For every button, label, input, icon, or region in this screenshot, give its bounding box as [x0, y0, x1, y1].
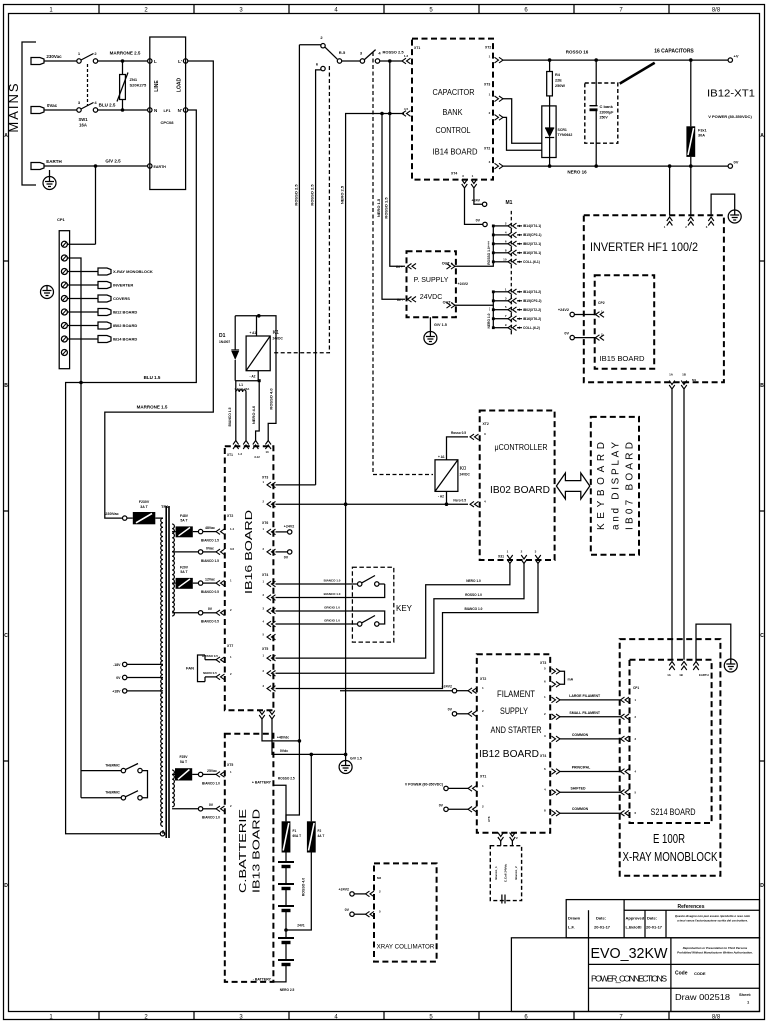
svg-text:0V: 0V — [734, 160, 739, 165]
taps -18V 0V +18V — [123, 662, 127, 666]
breaker contact 2 — [299, 44, 320, 46]
earth symbol CP1 — [41, 286, 54, 299]
IB13 board box — [225, 734, 274, 982]
+ BATTERY wire — [273, 785, 286, 821]
svg-text:TYN0642: TYN0642 — [558, 133, 573, 137]
svg-text:22E: 22E — [555, 79, 562, 83]
thermic series link — [142, 771, 147, 798]
svg-text:XT1: XT1 — [480, 775, 486, 779]
svg-text:4A T: 4A T — [318, 834, 325, 838]
mains bracket — [22, 42, 36, 185]
svg-text:0.5mH 15A: 0.5mH 15A — [235, 387, 251, 391]
starter wire PRINCIPAL — [552, 769, 561, 775]
svg-text:+24V2: +24V2 — [458, 282, 469, 286]
svg-text:XT2: XT2 — [480, 677, 486, 681]
svg-text:CP2: CP2 — [598, 301, 605, 305]
CP1 tap IB12 BOARD — [67, 311, 98, 313]
svg-text:XT7: XT7 — [227, 644, 233, 648]
svg-text:CAPACITOR: CAPACITOR — [433, 87, 475, 97]
svg-text:XT5: XT5 — [227, 763, 233, 767]
M1 plus bus — [455, 226, 493, 266]
svg-text:EARTH: EARTH — [154, 165, 167, 169]
svg-text:IB14 BOARD: IB14 BOARD — [113, 337, 137, 342]
wire 0V XT6-2 — [276, 551, 288, 553]
svg-text:8/8: 8/8 — [712, 1015, 721, 1021]
svg-text:- A2: - A2 — [438, 495, 444, 499]
svg-text:EARTH: EARTH — [699, 673, 709, 677]
CP1 tap IB14 BOARD — [67, 338, 98, 340]
svg-text:22000µF: 22000µF — [600, 111, 615, 115]
svg-text:K0: K0 — [460, 466, 467, 472]
CP1 tap X-RAY MONOBLOCK — [67, 271, 98, 273]
collimator 0V terminal — [350, 912, 354, 916]
svg-text:ROSSO 4.0: ROSSO 4.0 — [268, 388, 273, 410]
svg-text:GRIGIO 1.0: GRIGIO 1.0 — [324, 606, 340, 610]
svg-text:C bank: C bank — [600, 104, 614, 109]
breaker contact 6 — [321, 66, 325, 70]
svg-text:Bianco_2: Bianco_2 — [514, 866, 518, 880]
terminal 0Vac — [31, 107, 44, 114]
svg-text:MARRONE 2.5: MARRONE 2.5 — [110, 51, 141, 56]
tap 0Vac — [172, 551, 198, 553]
svg-text:20-01-17: 20-01-17 — [594, 925, 611, 930]
svg-text:R-5: R-5 — [339, 50, 346, 55]
starter wire SHIFTED — [552, 790, 561, 796]
svg-text:S20K275: S20K275 — [130, 83, 147, 88]
svg-text:M1: M1 — [506, 200, 513, 206]
svg-text:F48V: F48V — [180, 514, 189, 518]
svg-text:0V: 0V — [448, 708, 453, 712]
wire EARTH row — [44, 165, 148, 167]
svg-text:ZN1: ZN1 — [130, 77, 138, 82]
svg-text:230Vac: 230Vac — [46, 54, 62, 59]
M1 pin 2 — [493, 225, 508, 227]
switch SW1 pole 1-2 — [77, 59, 81, 63]
svg-text:IB14 BOARD: IB14 BOARD — [433, 147, 478, 157]
svg-text:P. SUPPLY: P. SUPPLY — [414, 277, 449, 284]
fuse F25V — [172, 773, 175, 775]
svg-text:Date:: Date: — [596, 916, 606, 921]
svg-text:IB16(XT6-1): IB16(XT6-1) — [523, 251, 541, 255]
svg-text:C: C — [4, 633, 8, 639]
svg-text:250W: 250W — [555, 84, 565, 88]
svg-text:N: N — [154, 108, 157, 113]
svg-text:COMMON: COMMON — [572, 733, 589, 737]
svg-text:XT4: XT4 — [451, 172, 457, 176]
V POWER terminal — [444, 786, 448, 790]
M1 pin 9 — [493, 327, 508, 329]
wires inverter to monoblock — [671, 389, 673, 660]
svg-text:BIANCO 1.0: BIANCO 1.0 — [202, 782, 220, 786]
svg-text:A: A — [4, 133, 8, 139]
wire N to filter — [98, 109, 148, 111]
IB07 keyboard display board — [591, 417, 639, 555]
svg-text:48Vac: 48Vac — [205, 526, 215, 530]
svg-text:F25V: F25V — [179, 755, 188, 759]
svg-text:Approved:: Approved: — [626, 916, 646, 921]
breaker contact 4 — [375, 59, 379, 63]
svg-text:BLU 1.5: BLU 1.5 — [144, 375, 161, 380]
svg-text:μCONTROLLER: μCONTROLLER — [495, 443, 548, 452]
SW1 mechanical link — [87, 64, 89, 106]
IB12 filament board box — [477, 654, 550, 832]
svg-text:SW1: SW1 — [78, 117, 88, 122]
svg-text:MAINS: MAINS — [6, 81, 21, 132]
SCR gate wires — [503, 99, 542, 143]
svg-text:25Vac: 25Vac — [207, 769, 217, 773]
svg-text:L.Belotti: L.Belotti — [626, 925, 642, 930]
wire XT5-1 to X31-1 — [276, 564, 510, 659]
svg-text:BIANCO 1.0: BIANCO 1.0 — [465, 607, 483, 611]
svg-text:XT1: XT1 — [227, 453, 233, 457]
svg-text:POWER_CONNECTIONS: POWER_CONNECTIONS — [591, 974, 667, 984]
svg-text:+24V2: +24V2 — [284, 525, 295, 529]
svg-text:IN -: IN - — [397, 298, 404, 302]
+48Vdc wire — [262, 719, 299, 741]
M1 pin 3 — [493, 300, 508, 302]
svg-text:5A T: 5A T — [180, 519, 188, 523]
svg-text:D: D — [4, 883, 8, 889]
svg-text:K1: K1 — [273, 330, 280, 336]
svg-text:+24V: +24V — [472, 199, 481, 203]
diode D1 — [234, 316, 236, 350]
svg-text:24VDC: 24VDC — [460, 473, 471, 477]
link dashed K1 — [272, 66, 329, 353]
IB16 board box — [225, 446, 274, 710]
svg-text:XT3: XT3 — [484, 83, 490, 87]
svg-text:F1: F1 — [293, 829, 297, 833]
svg-text:IB02 BOARD: IB02 BOARD — [113, 323, 137, 328]
svg-text:1B: 1B — [679, 673, 683, 677]
svg-text:BIANCO 1.0: BIANCO 1.0 — [202, 816, 220, 820]
svg-text:+V: +V — [734, 54, 739, 59]
D1 to A2 wire — [235, 380, 259, 382]
svg-text:XT3: XT3 — [262, 476, 268, 480]
svg-text:M2: M2 — [377, 876, 381, 880]
P supply box — [407, 251, 456, 317]
24V1 tap — [284, 928, 288, 932]
svg-text:CP1: CP1 — [633, 686, 639, 690]
svg-text:IB12 BOARD: IB12 BOARD — [113, 310, 137, 315]
svg-text:ROSSO 2.5: ROSSO 2.5 — [278, 777, 295, 781]
XT3-2 to IB02 wire — [276, 503, 469, 505]
svg-text:8/8: 8/8 — [712, 8, 721, 14]
svg-text:5A T: 5A T — [180, 570, 188, 574]
svg-text:FAN: FAN — [186, 666, 194, 671]
NERO 4.0 wire — [256, 381, 260, 441]
M1 pin 1 — [493, 291, 508, 293]
0V terminal — [452, 712, 456, 716]
svg-text:Reproduction or Presentation t: Reproduction or Presentation to Third Pe… — [683, 946, 748, 950]
svg-text:13: 13 — [265, 450, 269, 454]
svg-text:0Vdc: 0Vdc — [280, 749, 288, 753]
XT4 to KEY wires — [276, 583, 358, 585]
svg-text:D: D — [760, 883, 764, 889]
svg-text:SCR1: SCR1 — [558, 128, 567, 132]
wire NERO 1.5 to psupply — [382, 114, 405, 300]
tap 0V — [172, 612, 198, 614]
svg-text:0V: 0V — [208, 607, 213, 611]
svg-text:BIANCO 1.0: BIANCO 1.0 — [324, 579, 341, 583]
NERO 2.5 wire down — [346, 114, 404, 755]
svg-text:NERO 1.0: NERO 1.0 — [487, 313, 491, 328]
svg-text:IB16(XT6-2): IB16(XT6-2) — [523, 317, 541, 321]
svg-text:+48Vdc: +48Vdc — [277, 736, 289, 740]
svg-text:3-12: 3-12 — [254, 455, 260, 459]
svg-text:BIANCO 1.5: BIANCO 1.5 — [228, 407, 232, 426]
XT8 bottom pins — [259, 711, 265, 720]
wires down to inverter — [669, 166, 671, 215]
wire CP1-2 — [67, 258, 81, 798]
svg-text:NERO 16: NERO 16 — [567, 170, 587, 175]
svg-text:F20V: F20V — [180, 566, 189, 570]
svg-text:BIANCO 0.5: BIANCO 0.5 — [201, 620, 219, 624]
svg-text:16A: 16A — [79, 123, 87, 128]
KEY box — [352, 567, 393, 642]
IB15 board box — [595, 275, 655, 369]
svg-text:LARGE FILAMENT: LARGE FILAMENT — [569, 694, 601, 698]
svg-text:- BATTERY: - BATTERY — [253, 978, 272, 982]
svg-text:IB13 BOARD: IB13 BOARD — [251, 808, 263, 893]
0Vdc wire with earth — [272, 719, 346, 754]
svg-text:NERO 1.0: NERO 1.0 — [466, 579, 481, 583]
svg-text:C.BATTERIE: C.BATTERIE — [237, 809, 249, 893]
svg-text:a terzi senza l'autorizzazione: a terzi senza l'autorizzazione scritta d… — [677, 919, 748, 923]
title block — [511, 900, 759, 1012]
svg-text:SHIFTED: SHIFTED — [571, 786, 586, 790]
svg-text:COMMON: COMMON — [572, 807, 589, 811]
IB02 board box — [480, 411, 555, 561]
+24V2 terminal to CP2-1 — [570, 312, 574, 316]
svg-text:NERO 2.5: NERO 2.5 — [340, 185, 345, 204]
svg-text:NERO 0.5: NERO 0.5 — [203, 671, 217, 675]
svg-text:XT6: XT6 — [262, 521, 268, 525]
monoblock top pins — [669, 662, 675, 671]
svg-text:0V: 0V — [209, 803, 214, 807]
earth junction down wire — [95, 166, 97, 244]
capacitor bank box — [585, 83, 618, 143]
svg-text:F2: F2 — [318, 829, 322, 833]
+24V2 feed wire — [340, 690, 452, 692]
svg-text:CP1: CP1 — [57, 217, 66, 222]
svg-text:TR1: TR1 — [161, 504, 169, 509]
CP1 tap IB02 BOARD — [67, 325, 98, 327]
wire XT5-3 to X31-3 — [276, 564, 539, 689]
M1 pin 7 — [493, 318, 508, 320]
svg-text:THERMIC: THERMIC — [105, 764, 120, 768]
wire XT5-2 to X31-2 — [276, 564, 525, 674]
S214 board box — [630, 660, 712, 823]
NERO 16 bus wire — [503, 165, 728, 167]
svg-text:0V: 0V — [564, 332, 569, 336]
svg-text:BIANCO 1.0: BIANCO 1.0 — [324, 592, 341, 596]
svg-text:D1: D1 — [219, 333, 226, 339]
svg-text:0V: 0V — [345, 908, 350, 912]
- BATTERY wire — [273, 965, 286, 982]
svg-text:C.Coll 24Vdc: C.Coll 24Vdc — [504, 864, 508, 883]
switch SW1 pole 3-4 — [44, 109, 77, 111]
svg-text:XT4: XT4 — [540, 754, 546, 758]
svg-text:+ BATTERY: + BATTERY — [252, 781, 272, 785]
wire ROSSO 1.5 to psupply — [390, 61, 405, 266]
svg-text:B: B — [4, 383, 8, 389]
key switch 2 — [358, 622, 362, 626]
svg-text:X-RAY MONOBLOCK: X-RAY MONOBLOCK — [113, 269, 153, 274]
svg-text:SMALL FILAMENT: SMALL FILAMENT — [569, 711, 601, 715]
svg-text:30A: 30A — [698, 134, 705, 138]
svg-text:ROSSO 1.0: ROSSO 1.0 — [487, 247, 491, 265]
svg-text:0Vac: 0Vac — [206, 546, 214, 550]
wire from N-prime — [66, 110, 197, 834]
inductor L1 — [235, 381, 237, 392]
svg-text:XT3: XT3 — [540, 661, 546, 665]
svg-text:+++: +++ — [487, 241, 491, 247]
svg-text:IB15(CP2-1): IB15(CP2-1) — [523, 233, 542, 237]
svg-text:1-2: 1-2 — [238, 452, 242, 456]
svg-text:CPC08: CPC08 — [161, 120, 175, 125]
svg-text:A: A — [760, 133, 764, 139]
svg-text:IB14(XT4-1): IB14(XT4-1) — [523, 224, 541, 228]
earth symbol mains — [43, 177, 56, 190]
svg-text:+24V2: +24V2 — [442, 685, 453, 689]
svg-text:IB15 BOARD: IB15 BOARD — [600, 354, 646, 363]
svg-text:24VDC: 24VDC — [420, 294, 443, 301]
svg-text:INVERTER: INVERTER — [113, 283, 133, 288]
svg-text:INVERTER HF1 100/2: INVERTER HF1 100/2 — [590, 242, 698, 254]
breaker contact R-5 — [337, 59, 341, 63]
svg-text:20-01-17: 20-01-17 — [646, 925, 663, 930]
wire to filter L — [98, 60, 148, 62]
svg-text:24V1: 24V1 — [297, 924, 305, 928]
long wire contact2 down to battery F1 — [286, 45, 299, 822]
svg-text:IB15(CP2-2): IB15(CP2-2) — [523, 299, 542, 303]
collimator +24V2 terminal — [350, 892, 354, 896]
svg-text:IB12 BOARD: IB12 BOARD — [479, 748, 539, 760]
M1 pin 4 — [493, 234, 508, 236]
0V terminal — [728, 164, 732, 168]
link dashed K0 — [373, 52, 433, 475]
filament wire SMALL FILAMENT — [552, 714, 561, 720]
svg-text:XT2: XT2 — [227, 514, 233, 518]
fuse F1 battery — [282, 821, 291, 852]
connector XT1 pins 4-5 — [402, 111, 411, 117]
svg-text:ROSSO 2.5: ROSSO 2.5 — [294, 184, 299, 206]
svg-text:Questo disegno non può essere: Questo disegno non può essere riprodotto… — [675, 914, 750, 918]
monoblock outer box — [620, 639, 721, 876]
M1 pin 5 — [493, 309, 508, 311]
svg-text:Nero 0.5: Nero 0.5 — [453, 499, 466, 503]
0V tap to XT5-2 — [172, 808, 198, 810]
svg-text:BIANCO 1.5: BIANCO 1.5 — [201, 559, 219, 563]
earth symbol inverter — [728, 210, 741, 223]
svg-text:CONTROL: CONTROL — [436, 125, 471, 135]
svg-text:3A T: 3A T — [140, 505, 148, 509]
filament wire LARGE FILAMENT — [552, 697, 561, 703]
svg-text:SUPPLY: SUPPLY — [500, 706, 528, 716]
svg-text:+24V2: +24V2 — [558, 308, 569, 312]
svg-text:5A T: 5A T — [180, 760, 188, 764]
CP1 tap INVERTER — [67, 284, 98, 286]
tap 12Vac with fuse F20V — [172, 582, 176, 584]
svg-text:0V: 0V — [284, 556, 289, 560]
svg-text:S214 BOARD: S214 BOARD — [651, 807, 696, 818]
svg-text:250V: 250V — [600, 116, 609, 120]
svg-text:F230V: F230V — [139, 500, 150, 504]
svg-text:0V: 0V — [439, 803, 444, 807]
svg-text:IB02(XT2-1): IB02(XT2-1) — [523, 242, 541, 246]
svg-text:- A2: - A2 — [250, 375, 256, 379]
svg-text:B: B — [760, 383, 764, 389]
svg-text:IB02 BOARD: IB02 BOARD — [490, 484, 550, 496]
svg-text:+ A1: + A1 — [250, 331, 257, 335]
M1 pin 6 — [493, 243, 508, 245]
ROSSO 16 bus wire — [503, 59, 728, 61]
svg-text:F3x1: F3x1 — [698, 129, 707, 133]
svg-text:230Vac: 230Vac — [105, 511, 119, 516]
svg-text:mA: mA — [568, 678, 574, 682]
svg-text:1-2: 1-2 — [404, 54, 409, 58]
FAN wires — [198, 655, 206, 682]
svg-text:Code: Code — [675, 971, 688, 977]
svg-text:G/V 1.5: G/V 1.5 — [350, 757, 362, 761]
interface double arrow — [556, 473, 589, 499]
inverter top pins — [667, 217, 673, 226]
svg-text:FILAMENT: FILAMENT — [497, 689, 535, 699]
terminal 230Vac — [31, 58, 44, 65]
svg-text:1N4007: 1N4007 — [219, 340, 230, 344]
M1 pin 8 — [493, 252, 508, 254]
line filter LF1 box — [150, 37, 186, 190]
breaker contact 3 — [360, 59, 364, 63]
svg-text:IN +: IN + — [396, 265, 404, 269]
wire XT4-1 to +24V terminal — [474, 188, 483, 204]
svg-text:ROSSO 1.5: ROSSO 1.5 — [384, 197, 389, 219]
relay K0 — [435, 460, 458, 492]
svg-text:BANK: BANK — [443, 107, 463, 117]
+V terminal — [728, 58, 732, 62]
varistor ZN1 — [122, 61, 124, 75]
svg-text:XT4: XT4 — [262, 573, 268, 577]
svg-text:XT6: XT6 — [487, 816, 491, 822]
inverter HF1 box — [584, 215, 724, 382]
svg-text:ROSSO 1.0: ROSSO 1.0 — [465, 593, 482, 597]
svg-text:V POWER (80-350VDC): V POWER (80-350VDC) — [405, 782, 443, 786]
svg-text:0Vac: 0Vac — [47, 103, 58, 108]
svg-text:IB02(XT2-2): IB02(XT2-2) — [523, 308, 541, 312]
svg-text:LOAD: LOAD — [177, 78, 183, 93]
wire CP1-1 — [67, 243, 95, 245]
terminal EARTH — [31, 163, 44, 170]
svg-text:CODE: CODE — [694, 971, 706, 976]
svg-text:NERO 1.5: NERO 1.5 — [376, 198, 381, 217]
svg-text:IB14(XT4-2): IB14(XT4-2) — [523, 290, 541, 294]
resistor R4 — [549, 60, 551, 71]
svg-text:Bianco_1: Bianco_1 — [494, 866, 498, 880]
M1 minus bus — [455, 292, 493, 328]
svg-text:4-5: 4-5 — [404, 107, 409, 111]
svg-text:NERO 4.0: NERO 4.0 — [251, 405, 256, 424]
svg-text:XT2: XT2 — [485, 46, 491, 50]
svg-text:ROSSO 16: ROSSO 16 — [566, 50, 589, 55]
svg-text:16 CAPACITORS: 16 CAPACITORS — [654, 49, 694, 55]
M1 pin 10 — [493, 261, 508, 263]
svg-text:BLU 2.5: BLU 2.5 — [99, 103, 116, 108]
filament wire COMMON — [552, 736, 561, 742]
svg-text:60A T: 60A T — [293, 834, 302, 838]
svg-text:10: 10 — [503, 257, 507, 261]
svg-text:IB16 BOARD: IB16 BOARD — [243, 509, 255, 594]
fuse F2 battery — [307, 821, 316, 852]
